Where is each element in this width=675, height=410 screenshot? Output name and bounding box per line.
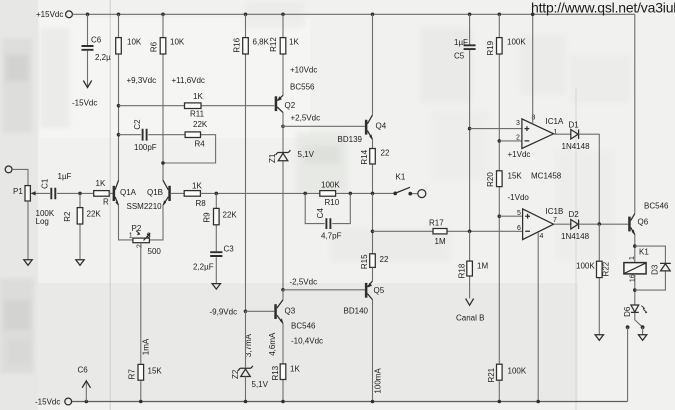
wire Z2 to rail [245, 311, 247, 401]
svg-text:Q4: Q4 [376, 122, 387, 131]
svg-text:2,2µ: 2,2µ [95, 53, 111, 62]
svg-text:4,7pF: 4,7pF [321, 232, 342, 241]
ground P1 [24, 260, 32, 266]
capacitor C4 4,7pF [316, 208, 342, 241]
wire R to Q1A base [109, 192, 112, 194]
wire R17 line [373, 230, 523, 232]
wire base Q4 feed [283, 125, 365, 127]
label url [531, 0, 675, 16]
svg-text:100K: 100K [321, 181, 340, 190]
svg-text:R9: R9 [203, 212, 212, 223]
resistor R4 22K [185, 120, 208, 149]
capacitor C2 100pF [133, 119, 157, 152]
svg-text:R15: R15 [360, 254, 369, 269]
wire Q3 emitter to R13 [282, 323, 284, 401]
svg-text:Q1B: Q1B [147, 188, 163, 197]
svg-text:2: 2 [516, 135, 520, 142]
ground R2 [76, 260, 84, 266]
svg-text:1M: 1M [435, 237, 446, 246]
svg-text:D2: D2 [569, 210, 580, 219]
svg-text:C2: C2 [133, 119, 142, 130]
node C2 junction [117, 133, 121, 137]
svg-text:-10,4Vdc: -10,4Vdc [291, 337, 323, 346]
arrow Canal B [456, 299, 484, 323]
resistor R7 15K [127, 364, 162, 380]
capacitor C6 [72, 36, 111, 108]
node R21 bottom [498, 400, 502, 404]
wire R2 branch [79, 193, 81, 259]
resistor R10 100K [320, 181, 341, 208]
wire Q5 verticals [372, 267, 374, 401]
node Q2 collector junction [281, 125, 285, 129]
led D6 [623, 305, 648, 317]
wire Q3 base feed [246, 310, 275, 312]
wire R22 branch [598, 224, 600, 335]
svg-text:100K: 100K [507, 38, 526, 47]
wire Q4 emitter to R14 [372, 139, 374, 193]
diode D3 [651, 263, 671, 275]
svg-text:3: 3 [147, 233, 151, 240]
svg-text:6,8K: 6,8K [253, 38, 270, 47]
label +11,6Vdc [172, 76, 205, 85]
resistor R12 1K [269, 37, 299, 54]
ground C3 [212, 284, 220, 290]
label 3,7mA [244, 333, 253, 357]
resistor R6 10K [150, 38, 185, 55]
resistor R19 100K [486, 38, 526, 56]
label +9,3Vdc [127, 76, 157, 85]
capacitor C1 1uF [41, 172, 72, 199]
svg-text:2,2µF: 2,2µF [193, 263, 214, 272]
svg-text:C4: C4 [316, 208, 325, 219]
svg-text:22K: 22K [193, 120, 208, 129]
svg-text:500: 500 [148, 247, 162, 256]
svg-text:R14: R14 [360, 149, 369, 164]
wire IC1B plus input [499, 215, 522, 217]
transistor Q3 BC546 [274, 300, 295, 324]
svg-text:BC546: BC546 [644, 202, 669, 211]
resistor R13 1K [271, 364, 301, 381]
svg-text:C6: C6 [91, 36, 102, 45]
svg-text:R4: R4 [195, 140, 206, 149]
svg-text:R2: R2 [63, 211, 72, 222]
svg-text:R8: R8 [196, 199, 207, 208]
node Q3 base junction [244, 310, 248, 314]
svg-text:R6: R6 [150, 41, 159, 52]
svg-text:4: 4 [540, 233, 544, 240]
svg-text:K1: K1 [639, 248, 649, 257]
zener Z1 5,1V [268, 150, 315, 163]
wire P1 to ground [27, 201, 29, 260]
svg-text:D6: D6 [623, 306, 632, 317]
svg-text:R20: R20 [486, 172, 495, 187]
svg-text:100mA: 100mA [374, 368, 383, 394]
label K1 relay [629, 248, 649, 283]
node R10 left [303, 192, 307, 196]
wire Q6 emitter down [634, 235, 636, 263]
node feedback to R6 rail [161, 161, 165, 165]
resistor R22 100K [576, 261, 610, 277]
node IC1A minus junction [498, 139, 502, 143]
op-amp IC1A [516, 115, 564, 149]
svg-text:10K: 10K [127, 38, 142, 47]
svg-text:Q6: Q6 [638, 218, 649, 227]
wire to ground D6 [642, 327, 644, 334]
svg-text:+15Vdc: +15Vdc [36, 10, 63, 19]
svg-text:1mA: 1mA [142, 338, 151, 355]
wire R10 right [336, 192, 396, 194]
svg-text:P1: P1 [13, 187, 23, 196]
svg-text:4,6mA: 4,6mA [268, 332, 277, 356]
wire input to P1 [12, 169, 28, 185]
svg-text:R21: R21 [487, 367, 496, 382]
wire D1 to junction [579, 134, 600, 224]
svg-text:-1Vdo: -1Vdo [508, 193, 530, 202]
potentiometer P1 100K Log [13, 186, 55, 226]
node R13 bottom [281, 400, 285, 404]
transistor Q6 BC546 [628, 214, 649, 236]
svg-text:1K: 1K [289, 38, 299, 47]
svg-text:100K: 100K [576, 262, 595, 271]
resistor R21 100K [487, 364, 527, 382]
svg-text:3: 3 [516, 120, 520, 127]
svg-text:Q5: Q5 [374, 286, 385, 295]
svg-text:R11: R11 [190, 110, 205, 119]
resistor R20 15K [486, 171, 522, 187]
node C5 rail top [468, 13, 472, 17]
ground D6 [638, 335, 646, 341]
wire IC1A pin8 [531, 13, 535, 124]
resistor R8 1K [184, 182, 206, 209]
wire Q1B base to R8 [171, 192, 184, 194]
label 1mA [142, 338, 151, 355]
svg-text:1µF: 1µF [454, 38, 468, 47]
label -1Vdc [508, 193, 530, 202]
svg-text:100pF: 100pF [134, 143, 157, 152]
wire R18 branch [469, 231, 471, 298]
svg-text:IC1A: IC1A [546, 117, 564, 126]
svg-text:BC556: BC556 [290, 83, 315, 92]
node R19 rail top [498, 13, 502, 17]
wire R12 rail [282, 14, 284, 95]
node IC1A plus junction [468, 127, 472, 131]
svg-text:1K: 1K [193, 92, 203, 101]
svg-text:MC1458: MC1458 [531, 172, 562, 181]
resistor R15 22 [360, 254, 389, 269]
wire Q1A emitter to P2 [119, 205, 133, 240]
svg-text:6: 6 [517, 225, 521, 232]
svg-text:R: R [103, 198, 109, 207]
wire Q3 collector up [282, 290, 284, 300]
label SSM2210 [127, 202, 163, 211]
wire IC1A minus input [499, 140, 522, 142]
svg-text:22K: 22K [87, 210, 102, 219]
svg-text:R13: R13 [271, 365, 280, 380]
svg-text:1M: 1M [477, 262, 488, 271]
capacitor C6 bottom arrow [78, 366, 91, 402]
node R7 bottom [139, 400, 143, 404]
svg-text:Log: Log [36, 217, 49, 226]
svg-text:http://www.qsl.net/va3iul: http://www.qsl.net/va3iul [531, 0, 675, 16]
node 10K rail top [117, 13, 121, 17]
node rail riser top [626, 325, 630, 329]
resistor R14 22 [360, 149, 390, 165]
svg-text:-9,9Vdc: -9,9Vdc [210, 308, 238, 317]
svg-text:R12: R12 [269, 37, 278, 52]
ground R22 [595, 335, 603, 341]
label BD139 [338, 135, 363, 144]
svg-text:+9,3Vdc: +9,3Vdc [127, 76, 157, 85]
label MC1458 [531, 172, 562, 181]
node R11 left junction [117, 104, 121, 108]
svg-text:1: 1 [129, 233, 133, 240]
switch K1 contact [393, 173, 425, 198]
svg-text:22: 22 [381, 149, 390, 158]
svg-text:22: 22 [380, 255, 389, 264]
terminal +15Vdc [36, 10, 72, 19]
label BC546 Q6 [644, 202, 669, 211]
resistor R16 6,8K [233, 37, 270, 54]
svg-text:10K: 10K [170, 38, 185, 47]
wire C6 stub [87, 14, 89, 45]
wire IC1A plus input [470, 128, 522, 130]
resistor R18 1M [458, 261, 489, 278]
svg-text:C1: C1 [41, 178, 50, 189]
transistor Q4 BD139 [365, 115, 387, 140]
svg-text:SSM2210: SSM2210 [127, 202, 163, 211]
svg-text:+2,5Vdc: +2,5Vdc [291, 114, 321, 123]
svg-text:Q3: Q3 [285, 307, 296, 316]
wire D3 branch [635, 246, 666, 290]
svg-text:IC1B: IC1B [546, 207, 564, 216]
label BC546 Q3 [291, 322, 316, 331]
svg-text:15K: 15K [508, 172, 523, 181]
svg-text:BD139: BD139 [338, 135, 363, 144]
svg-text:R19: R19 [486, 40, 495, 55]
svg-text:Canal B: Canal B [456, 314, 484, 323]
svg-text:P2: P2 [132, 224, 142, 233]
capacitor C3 2,2uF [193, 245, 234, 272]
svg-text:C3: C3 [224, 245, 235, 254]
node R18 junction [468, 230, 472, 234]
wire Q5 base feed [283, 289, 365, 291]
svg-text:R22: R22 [601, 261, 610, 276]
node Q5 emitter bottom [371, 400, 375, 404]
node R12 rail top [281, 13, 285, 17]
svg-text:5,1V: 5,1V [252, 380, 269, 389]
svg-text:1: 1 [629, 256, 636, 260]
svg-text:R16: R16 [233, 37, 242, 52]
node R9 junction [215, 192, 219, 196]
transistor Q1A [113, 180, 137, 206]
label BD140 [344, 307, 369, 316]
svg-text:R17: R17 [429, 219, 444, 228]
svg-text:Q2: Q2 [285, 101, 296, 110]
svg-text:1N4148: 1N4148 [562, 142, 591, 151]
svg-text:Z1: Z1 [268, 153, 277, 163]
node R10 right [349, 192, 353, 196]
wire R9 branch [215, 193, 217, 283]
node coil bottom junction [633, 288, 637, 292]
svg-text:C6: C6 [78, 366, 89, 375]
svg-text:-15Vdc: -15Vdc [72, 99, 97, 108]
svg-text:K1: K1 [396, 173, 406, 182]
wire Q6 collector rail [634, 14, 636, 213]
node R16 rail top [244, 13, 248, 17]
svg-text:1K: 1K [290, 365, 300, 374]
resistor R11 1K [185, 92, 205, 119]
wire IC1B pin4 [536, 232, 540, 403]
label -10,4Vdc [291, 337, 323, 346]
node R17 junction left [371, 230, 375, 234]
svg-text:D3: D3 [651, 264, 660, 275]
node Q6 emitter junction [633, 244, 637, 248]
terminal -15Vdc [35, 398, 72, 407]
svg-text:22K: 22K [223, 211, 238, 220]
svg-text:5,1V: 5,1V [298, 150, 315, 159]
wire R6 rail [162, 14, 164, 180]
node D6 ground junction [641, 325, 645, 329]
svg-text:R7: R7 [127, 369, 136, 380]
svg-text:1K: 1K [96, 179, 106, 188]
zener Z2 5,1V [231, 366, 269, 389]
node main/R14 junction [371, 192, 375, 196]
wire C1 to R [57, 192, 94, 194]
wire Q2 collector to Z1 [282, 112, 284, 289]
transistor Q5 BD140 [365, 281, 385, 300]
wire bottom rail [72, 401, 628, 403]
svg-text:BC546: BC546 [291, 322, 316, 331]
svg-text:Z2: Z2 [231, 369, 240, 379]
wire R16 rail [245, 14, 247, 311]
label 100mA [374, 368, 383, 394]
op-amp IC1B [517, 207, 563, 240]
label +10Vdc [290, 66, 317, 75]
wire top rail [73, 13, 635, 15]
diode D2 1N4148 [561, 210, 590, 241]
potentiometer P2 500 [129, 224, 162, 256]
svg-text:BD140: BD140 [344, 307, 369, 316]
wire C5 line [469, 14, 471, 231]
label -2,5Vdc [290, 278, 318, 287]
svg-text:1K: 1K [192, 182, 202, 191]
wire Q4 collector rail [372, 14, 374, 115]
svg-text:100K: 100K [508, 367, 527, 376]
wire C4 loop [305, 193, 350, 223]
wire D6 cathode diagonal [635, 313, 643, 327]
wire R15 branch [372, 193, 374, 253]
node IC1B plus junction [498, 214, 502, 218]
svg-text:R18: R18 [458, 263, 467, 278]
label -9,9Vdc [210, 308, 238, 317]
wire 10K rail [118, 14, 120, 180]
wire IC1A out to D1 [554, 133, 571, 135]
svg-text:+10Vdc: +10Vdc [290, 66, 317, 75]
svg-text:2: 2 [136, 244, 143, 248]
wire Q1B emitter to P2 [149, 205, 163, 240]
relay coil K1 [624, 263, 646, 274]
label +1Vdc [508, 150, 531, 159]
svg-text:15K: 15K [148, 367, 163, 376]
label 4,6mA [268, 332, 277, 356]
wire C2 feedback [119, 135, 216, 163]
node Q4 rail top [371, 13, 375, 17]
svg-text:1: 1 [554, 129, 558, 136]
svg-text:+11,6Vdc: +11,6Vdc [172, 76, 205, 85]
svg-text:5: 5 [517, 210, 521, 217]
svg-text:-15Vdc: -15Vdc [35, 398, 60, 407]
wire D2 to Q6 base [579, 223, 629, 225]
svg-text:1µF: 1µF [58, 172, 72, 181]
svg-text:C5: C5 [454, 52, 465, 61]
label BC556 [290, 83, 315, 92]
resistor R 1K [94, 179, 110, 207]
svg-text:7: 7 [553, 217, 557, 224]
wire main line R8 to R10 [200, 192, 319, 194]
node R2 junction [78, 192, 82, 196]
resistor R9 22K [203, 208, 238, 224]
wire P2 wiper down [140, 243, 142, 402]
capacitor C5 1uF [454, 38, 476, 61]
wire rail riser [627, 327, 629, 401]
node Z2 bottom [244, 400, 248, 404]
node C6 top junction [86, 13, 90, 17]
svg-text:D1: D1 [569, 121, 580, 130]
node D1 D2 junction [598, 222, 602, 226]
terminal input [5, 166, 12, 173]
svg-text:-2,5Vdc: -2,5Vdc [290, 278, 318, 287]
transistor Q1B [147, 180, 171, 206]
wire coil bottom [634, 274, 636, 305]
wire R19 rail [498, 14, 500, 401]
resistor 10K [116, 38, 142, 55]
svg-text:+1Vdc: +1Vdc [508, 150, 531, 159]
resistor R17 1M [429, 219, 447, 247]
diode D1 1N4148 [562, 121, 591, 152]
wire IC1B out to D2 [554, 223, 571, 225]
svg-text:R10: R10 [325, 198, 340, 207]
node C6 bottom junction [85, 400, 89, 404]
wire R11 line [119, 105, 275, 107]
node R6 rail top [161, 13, 165, 17]
svg-text:8: 8 [532, 115, 536, 122]
svg-text:16: 16 [630, 274, 637, 282]
svg-text:1N4148: 1N4148 [561, 232, 590, 241]
node -2,5Vdc junction [281, 288, 285, 292]
transistor Q2 BC556 [275, 95, 296, 112]
resistor R2 22K [63, 208, 101, 224]
label +2,5Vdc [291, 114, 321, 123]
svg-text:Q1A: Q1A [120, 188, 137, 197]
